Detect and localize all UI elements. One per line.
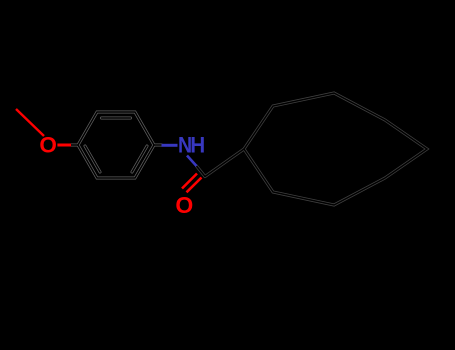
svg-text:O: O bbox=[39, 133, 57, 158]
svg-text:H: H bbox=[190, 131, 205, 157]
svg-text:O: O bbox=[175, 192, 193, 218]
